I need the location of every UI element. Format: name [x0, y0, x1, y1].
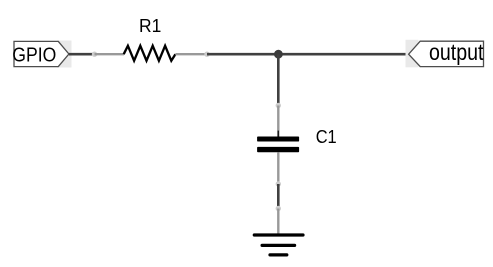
capacitor C1 — [257, 127, 337, 157]
resistor R1 — [124, 16, 176, 61]
node GPIO terminal highlight — [57, 41, 72, 68]
bendpoint right of R1 — [204, 52, 209, 57]
bendpoint above ground — [276, 206, 281, 211]
bendpoint above C1 — [276, 103, 281, 108]
svg-text:R1: R1 — [139, 16, 161, 36]
wire resistor to output — [207, 53, 409, 56]
net label output — [409, 39, 484, 67]
pin leg R1 left — [95, 53, 125, 55]
net label GPIO — [12, 41, 69, 66]
ground — [254, 235, 303, 255]
bendpoint left of R1 — [92, 52, 97, 57]
wire junction down to capacitor — [277, 54, 280, 105]
wire GPIO to resistor — [69, 53, 95, 56]
pin leg C1 top — [277, 106, 279, 137]
svg-text:GPIO: GPIO — [12, 44, 56, 66]
junction node — [274, 50, 283, 59]
pin leg R1 right — [175, 53, 207, 55]
svg-text:output: output — [429, 39, 484, 65]
bendpoint below C1 — [276, 181, 281, 186]
node output terminal highlight — [406, 40, 419, 68]
wire capacitor to ground — [277, 184, 280, 209]
pin leg ground — [277, 209, 279, 235]
pin leg C1 bottom — [277, 152, 279, 184]
svg-text:C1: C1 — [316, 127, 337, 147]
